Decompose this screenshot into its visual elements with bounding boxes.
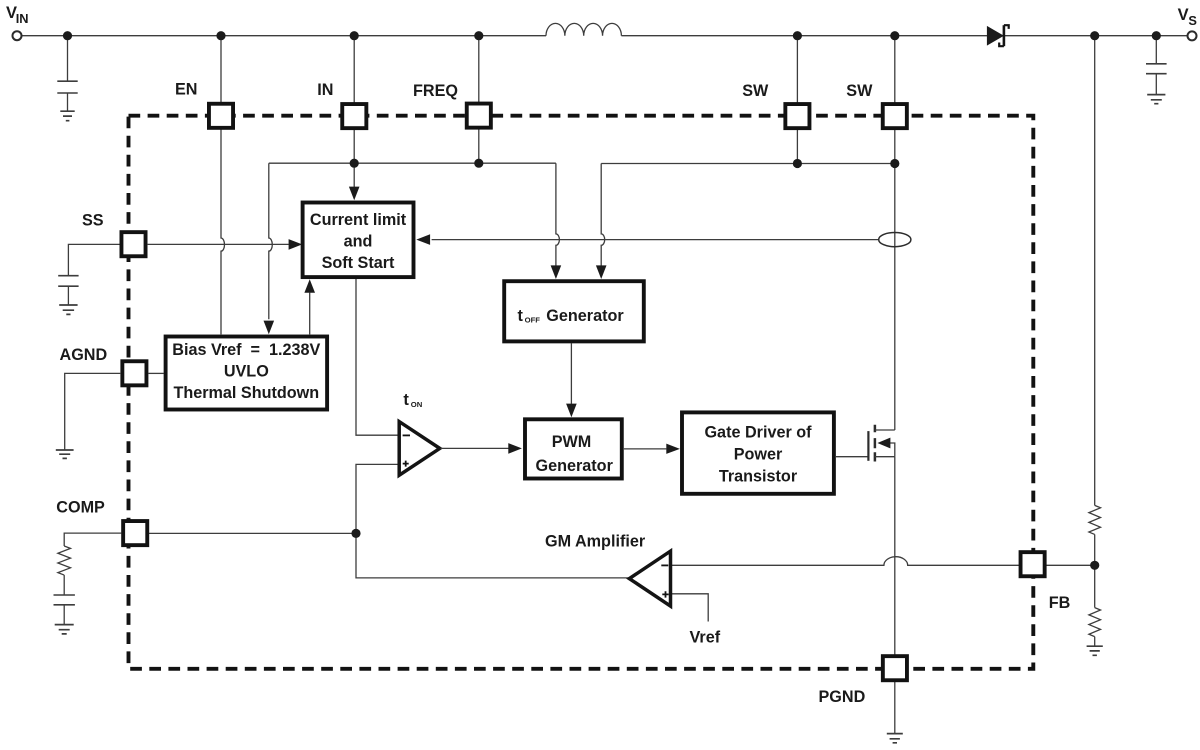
svg-text:Current limit: Current limit xyxy=(310,211,407,229)
wire node to comparator plus input xyxy=(356,464,398,533)
node junction dots xyxy=(63,31,1161,570)
current sense oval xyxy=(879,233,911,247)
pin FREQ xyxy=(467,104,491,128)
op-amp GM amplifier xyxy=(629,551,670,606)
svg-text:Generator: Generator xyxy=(546,307,624,325)
svg-text:Gate Driver of: Gate Driver of xyxy=(704,424,812,442)
wire AGND to Bias box xyxy=(149,372,164,374)
arrow into Current limit top xyxy=(349,187,360,201)
block: PWM Generator xyxy=(525,419,622,478)
block: tOFF Generator xyxy=(504,281,644,341)
wire B drop to tOFF (hops sense line) xyxy=(601,164,605,266)
svg-text:Vref: Vref xyxy=(690,628,721,646)
wire node down to GM output xyxy=(356,533,629,578)
ground (AGND) xyxy=(56,450,74,458)
svg-text:EN: EN xyxy=(175,81,198,99)
wire COMP left to RC network xyxy=(64,533,121,546)
block: Current limit and Soft Start xyxy=(303,203,414,278)
pin IN xyxy=(342,104,366,128)
pin EN xyxy=(209,104,233,128)
resistor (COMP) xyxy=(58,546,71,575)
wire top rail VIN to VS xyxy=(22,35,1188,37)
svg-text:UVLO: UVLO xyxy=(224,362,269,380)
wire FREQ drop xyxy=(478,36,480,164)
svg-text:t: t xyxy=(403,391,409,409)
ground (output cap) xyxy=(1147,95,1165,104)
pin AGND xyxy=(122,361,146,385)
svg-text:Power: Power xyxy=(734,446,783,464)
ground (FB divider) xyxy=(1087,646,1103,655)
svg-text:Transistor: Transistor xyxy=(719,468,798,486)
ground (PGND) xyxy=(887,734,903,743)
arrow into tOFF top right xyxy=(596,265,607,279)
pin FB xyxy=(1021,552,1045,576)
svg-text:S: S xyxy=(1188,13,1197,28)
wire Gate Driver to MOSFET gate xyxy=(836,456,868,458)
svg-text:COMP: COMP xyxy=(56,498,105,516)
svg-text:Generator: Generator xyxy=(536,457,614,475)
arrow into Current limit right xyxy=(416,234,430,245)
wire node row B (SW bus) xyxy=(601,163,895,165)
svg-text:PWM: PWM xyxy=(552,433,592,451)
wire A-left drop to Bias xyxy=(269,163,273,319)
inductor L xyxy=(546,23,621,35)
capacitor on SS xyxy=(58,276,78,287)
wire SS to Current limit (hops EN and Bias lines) xyxy=(148,243,289,245)
svg-text:IN: IN xyxy=(317,81,333,99)
wire Current limit bottom to comparator minus xyxy=(356,279,398,435)
wire SW2 drop to MOSFET drain xyxy=(894,36,896,430)
transistor Q (power MOSFET) xyxy=(868,425,894,462)
comparator tON U1 xyxy=(399,422,440,476)
wire IN drop xyxy=(353,36,355,187)
wire tOFF output to PWM xyxy=(570,343,572,404)
terminal VIN xyxy=(13,31,22,40)
pin SW (left) xyxy=(785,104,809,128)
svg-text:and: and xyxy=(344,233,373,251)
svg-text:V: V xyxy=(1178,6,1189,24)
wire PWM output to Gate Driver xyxy=(624,448,667,450)
wire A-right drop to tOFF (hops sense line) xyxy=(556,163,560,266)
wire FB divider from VS rail xyxy=(1094,36,1096,506)
arrow into tOFF top left xyxy=(551,265,562,279)
svg-text:SW: SW xyxy=(742,82,769,100)
ground (SS cap) xyxy=(59,305,77,314)
pin PGND xyxy=(883,656,907,680)
arrow into Bias top xyxy=(264,321,275,335)
wire GM minus input to FB (hops source line) xyxy=(671,557,1095,566)
wire xyxy=(1094,534,1096,607)
svg-text:SS: SS xyxy=(82,211,104,229)
output capacitor on VS xyxy=(1155,36,1157,94)
resistor R2 (lower divider) xyxy=(1089,608,1101,637)
svg-text:Soft Start: Soft Start xyxy=(322,254,395,272)
wire GM plus input to Vref xyxy=(671,594,708,622)
svg-text:GM Amplifier: GM Amplifier xyxy=(545,532,646,550)
wire MOSFET source to PGND xyxy=(894,457,896,734)
wire COMP to comparator node xyxy=(149,532,356,534)
wire SS left to capacitor xyxy=(68,244,120,275)
svg-text:t: t xyxy=(518,307,524,325)
pin SW (right) xyxy=(883,104,907,128)
arrow into Current limit left xyxy=(289,239,303,250)
ground (COMP) xyxy=(55,625,74,634)
svg-text:Thermal Shutdown: Thermal Shutdown xyxy=(173,384,319,402)
wire node row A (IN/FREQ bus) xyxy=(269,162,556,164)
svg-text:OFF: OFF xyxy=(525,315,541,324)
svg-text:FREQ: FREQ xyxy=(413,82,458,100)
terminal VS xyxy=(1188,31,1197,40)
input capacitor on VIN xyxy=(57,36,77,111)
IC boundary dashed box xyxy=(129,116,1034,669)
wire comparator output to PWM xyxy=(441,447,509,449)
svg-text:FB: FB xyxy=(1049,594,1071,612)
wire AGND to ground xyxy=(65,373,121,449)
svg-text:Bias Vref = 1.238V: Bias Vref = 1.238V xyxy=(172,341,320,359)
pin COMP xyxy=(123,521,147,545)
capacitor (COMP) xyxy=(54,595,75,605)
svg-text:ON: ON xyxy=(411,400,423,409)
block: Bias Vref UVLO Thermal Shutdown xyxy=(166,337,328,410)
wire up-arrow Bias to Current limit xyxy=(309,293,311,335)
svg-text:IN: IN xyxy=(16,11,29,26)
block: Gate Driver of Power Transistor xyxy=(682,412,834,493)
wire EN drop into Bias box xyxy=(221,36,225,335)
svg-text:SW: SW xyxy=(846,82,873,100)
pin SS xyxy=(121,232,145,256)
svg-text:PGND: PGND xyxy=(819,688,866,706)
ground (input cap) xyxy=(60,111,74,121)
wire current sense line xyxy=(432,239,879,241)
schottky diode D xyxy=(987,25,1009,46)
wire SW1 drop xyxy=(796,36,798,164)
svg-text:AGND: AGND xyxy=(60,346,108,364)
resistor R1 (upper divider) xyxy=(1089,505,1101,534)
